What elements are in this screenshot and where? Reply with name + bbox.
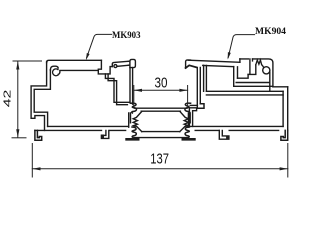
profile MK904 step to body — [273, 86, 288, 88]
profile MK903 gasket lip lower slant — [117, 65, 129, 66]
profile MK904 top wall inner slanted — [203, 65, 234, 66]
profile MK904 chamber left wall hook — [189, 108, 196, 127]
profile MK904 boss neck — [269, 72, 271, 91]
profile MK903 gasket groove — [98, 60, 112, 74]
svg-text:MK904: MK904 — [255, 26, 287, 36]
profile MK903 gasket lip upper slant — [112, 61, 129, 66]
profile MK904 U-groove — [248, 59, 256, 75]
profile MK904 fin foot — [197, 104, 204, 108]
profile MK904 cap — [186, 60, 191, 68]
arrowhead 42 top — [16, 52, 288, 170]
arrowhead leader MK903 — [86, 53, 90, 60]
profile MK904 gasket teeth — [253, 59, 264, 67]
profile MK903 bottom wall inner — [48, 125, 129, 127]
profile MK904 screw boss circle — [263, 67, 270, 74]
profile MK903 top wall inner line — [60, 69, 98, 71]
profile MK903 bottom J-foot — [101, 130, 108, 138]
channel cavity left chamfer and pinch teeth — [133, 112, 142, 132]
arrowhead 42 bottom — [16, 129, 19, 137]
profile MK904 bottom wall — [189, 126, 283, 130]
arrowhead leader MK904 — [228, 52, 231, 59]
profile MK903 glazing fin — [130, 68, 133, 105]
profile MK904 step up — [239, 59, 241, 62]
leader line MK903 — [87, 34, 112, 58]
channel floor outer — [134, 137, 188, 139]
profile MK903 left wall inner — [34, 70, 50, 127]
profile MK904 engagement fin wall — [197, 67, 200, 108]
channel top wall — [135, 108, 188, 111]
dimension 30 extension line left — [133, 86, 135, 106]
profile MK903 step below groove inner — [108, 74, 127, 105]
profile MK903 bottom wall outer — [35, 129, 126, 131]
profile MK904 head bottom wall — [234, 83, 273, 87]
profile MK903 screw-port curl — [50, 66, 58, 70]
svg-text:42: 42 — [2, 89, 13, 107]
profile MK904 cap underside — [186, 65, 197, 68]
channel bottom-right interlock foot — [185, 127, 189, 137]
leader line MK904 — [228, 35, 255, 58]
dimension 137 line — [32, 168, 287, 170]
channel cavity right chamfer and pinch teeth — [180, 112, 189, 132]
channel to sash stub — [190, 104, 197, 106]
profile MK903 lip bulb — [114, 65, 117, 68]
channel interlock knot top-left — [131, 103, 137, 113]
profile MK904 pocket inner floor — [238, 74, 249, 78]
dimension 137 extension line right — [287, 144, 289, 178]
profile MK904 body right wall — [283, 87, 288, 131]
svg-text:137: 137 — [150, 151, 169, 167]
dimension 137 extension line left — [31, 144, 33, 178]
arrowhead 137 right — [280, 167, 288, 170]
profile MK903 top wall outer edge — [47, 60, 102, 62]
profile MK904 web under top wall — [204, 65, 207, 91]
dimension 30 line — [134, 89, 188, 91]
profile MK903 bottom left foot hook — [35, 130, 42, 140]
arrowhead 30 left — [134, 89, 142, 92]
profile MK903 cap knob — [130, 59, 136, 67]
channel bottom-left interlock foot — [132, 127, 136, 137]
arrowhead 30 right — [179, 89, 187, 92]
channel left wall — [129, 113, 131, 127]
svg-text:30: 30 — [155, 75, 168, 92]
profile MK903 left wall outer with staircase — [31, 62, 46, 131]
profile MK904 pocket left wall — [234, 67, 238, 87]
svg-text:MK903: MK903 — [112, 30, 141, 40]
profile MK904 top wall outer slanted — [189, 60, 240, 62]
channel interlock knot top-right — [185, 103, 191, 113]
channel floor inner — [142, 131, 180, 133]
profile MK903 step below groove — [105, 74, 129, 102]
channel right wall — [188, 113, 190, 127]
profile MK904 bottom J-foot — [219, 130, 229, 139]
arrowhead 137 left — [32, 167, 40, 170]
dimension 42 extension lines — [12, 34, 288, 177]
dimension 42 line — [17, 61, 19, 137]
dimension 30 extension line right — [187, 86, 189, 106]
profile MK904 bottom right foot hook — [281, 130, 288, 140]
profile MK904 shelf — [206, 91, 283, 95]
profile MK904 top edge — [240, 59, 273, 87]
